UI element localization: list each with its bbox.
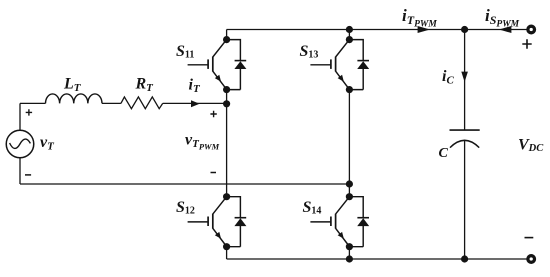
svg-text:VDC: VDC [518,137,544,155]
svg-text:iT: iT [189,77,201,96]
svg-text:LT: LT [63,76,82,95]
svg-text:iSPWM: iSPWM [485,6,520,29]
svg-text:S11: S11 [176,43,194,61]
svg-text:vTPWM: vTPWM [185,132,220,152]
svg-text:RT: RT [135,76,155,95]
svg-text:iTPWM: iTPWM [402,6,437,29]
svg-text:vT: vT [40,134,55,153]
svg-text:S14: S14 [303,199,322,217]
svg-text:S12: S12 [176,199,195,217]
svg-text:S13: S13 [300,43,319,61]
svg-text:C: C [439,146,449,161]
svg-text:iC: iC [442,68,454,87]
